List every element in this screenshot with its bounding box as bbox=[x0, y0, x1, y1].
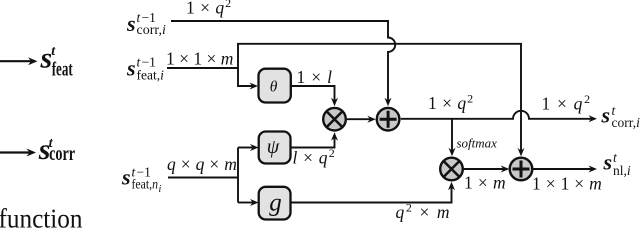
label 1 x q2 middle bbox=[428, 92, 474, 114]
label s_corr,i t output bbox=[601, 102, 640, 130]
stray text arrow to s_feat left bbox=[0, 41, 73, 80]
label 1 x q2 right bbox=[542, 92, 592, 114]
label 1 x 1 x m top bbox=[166, 49, 233, 69]
svg-text:corr,i: corr,i bbox=[612, 115, 640, 130]
wire A1 output line to s_corr output with hop over vertical skip wire bbox=[401, 111, 597, 123]
svg-text:softmax: softmax bbox=[457, 136, 498, 151]
svg-text:function: function bbox=[0, 203, 83, 230]
multiplier M2 bbox=[440, 158, 463, 181]
svg-text:s: s bbox=[40, 41, 53, 74]
svg-text:s: s bbox=[121, 165, 131, 190]
svg-text:i: i bbox=[159, 184, 162, 195]
adder A2 bbox=[510, 158, 533, 181]
stray text function bottom left bbox=[0, 203, 83, 234]
svg-text:1 × l: 1 × l bbox=[297, 67, 333, 87]
wire psi output to M1 bottom bbox=[291, 132, 339, 147]
wire feat,n junction vertical to psi and g bbox=[238, 144, 259, 206]
svg-text:ψ: ψ bbox=[267, 136, 280, 158]
wire M2 to A2 bbox=[464, 166, 509, 173]
label s_nl,i t output bbox=[603, 149, 631, 178]
wire theta output to multiplier M1 bbox=[291, 86, 338, 106]
wire g output to multiplier M2 bottom bbox=[291, 182, 456, 203]
wire s_corr input top line with hop over skip wire, down to adder A1 bbox=[171, 21, 395, 106]
label s_corr,i t-1 input bbox=[126, 10, 166, 38]
label s_feat,n_i t-1 input bbox=[121, 164, 162, 195]
stray text arrow to s_corr left bbox=[0, 133, 75, 166]
svg-text:s: s bbox=[603, 149, 613, 174]
wire feat,i junction down into theta box bbox=[238, 68, 258, 90]
svg-text:1 × m: 1 × m bbox=[464, 172, 506, 192]
label q x q x m bbox=[167, 154, 237, 174]
svg-text:feat,i: feat,i bbox=[137, 68, 165, 83]
svg-text:feat,n: feat,n bbox=[132, 177, 159, 192]
wire M1 to A1 bbox=[347, 116, 376, 123]
box psi bbox=[259, 132, 291, 164]
label 1 x l bbox=[297, 67, 333, 87]
svg-text:corr: corr bbox=[49, 143, 75, 165]
label s_feat,i t-1 input bbox=[126, 54, 164, 82]
wire A2 output to s_nl output bbox=[533, 166, 597, 173]
wire junction on output line down to multiplier M2 (softmax branch) bbox=[449, 119, 456, 156]
svg-text:g: g bbox=[269, 189, 282, 216]
svg-text:1 × 1 × m: 1 × 1 × m bbox=[532, 174, 602, 194]
label softmax bbox=[457, 136, 498, 151]
svg-text:q2 × m: q2 × m bbox=[396, 201, 452, 223]
label 1 x q2 top bbox=[186, 0, 232, 17]
svg-text:nl,i: nl,i bbox=[613, 163, 631, 178]
svg-text:θ: θ bbox=[270, 78, 278, 95]
box g bbox=[259, 187, 291, 220]
label 1 x 1 x m bottom right bbox=[532, 174, 602, 194]
adder A1 bbox=[377, 108, 400, 131]
svg-text:q × q × m: q × q × m bbox=[167, 154, 237, 174]
box theta bbox=[259, 69, 291, 103]
wire s_feat,n input line bbox=[168, 177, 238, 179]
svg-text:s: s bbox=[126, 56, 136, 81]
svg-text:s: s bbox=[601, 102, 611, 127]
wire s_feat,i input line bbox=[167, 67, 238, 69]
label l x q2 bbox=[293, 146, 336, 168]
svg-text:feat: feat bbox=[52, 60, 73, 81]
svg-text:1 × 1 × m: 1 × 1 × m bbox=[166, 49, 233, 69]
svg-text:s: s bbox=[126, 11, 136, 36]
svg-text:corr,i: corr,i bbox=[137, 23, 166, 38]
multiplier M1 bbox=[323, 108, 346, 131]
label 1 x m bbox=[464, 172, 506, 192]
wire skip connection from feat,i junction up and right to adder A2 bbox=[238, 44, 525, 157]
label q2 x m bbox=[396, 201, 452, 223]
